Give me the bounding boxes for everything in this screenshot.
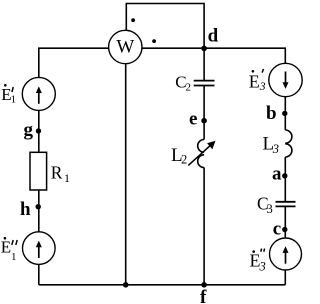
- svg-text:2: 2: [186, 81, 192, 93]
- node h: [36, 204, 41, 209]
- svg-text:3: 3: [272, 142, 279, 156]
- wire right branch E3' to L3: [284, 97, 286, 130]
- wire left branch E1'' to bottom rail: [38, 264, 40, 285]
- wattmeter W: [109, 30, 142, 63]
- variability arrow: [188, 141, 215, 166]
- wire middle branch C2 to L2 coil: [203, 86, 205, 140]
- wire right branch L3 to C3: [284, 157, 286, 202]
- inductor L3: [285, 130, 292, 157]
- svg-text:1: 1: [64, 171, 70, 185]
- svg-text:W: W: [116, 37, 134, 58]
- node b: [282, 111, 287, 116]
- capacitor C3: [276, 202, 296, 207]
- label L2: [171, 145, 187, 167]
- svg-text:1: 1: [11, 251, 17, 263]
- label E1': [1, 84, 16, 105]
- node f: [201, 282, 207, 288]
- wire middle branch d to C2: [203, 48, 205, 80]
- svg-text:R: R: [51, 162, 63, 182]
- svg-text:3: 3: [259, 260, 266, 274]
- svg-text:e: e: [189, 108, 197, 129]
- svg-text:a: a: [272, 164, 282, 185]
- svg-text:2: 2: [181, 153, 187, 167]
- wire wattmeter bottom to bottom rail: [125, 64, 127, 285]
- svg-text:3: 3: [259, 81, 266, 93]
- node g: [36, 128, 41, 133]
- wire left branch E1' to resistor: [38, 110, 40, 152]
- wattmeter polarity dot (current coil): [152, 39, 156, 43]
- node c: [282, 227, 287, 232]
- resistor R1: [30, 152, 47, 190]
- label R1: [51, 162, 70, 185]
- wire wattmeter right to node d and right corner: [142, 48, 285, 63]
- node d: [201, 46, 207, 52]
- junction below wattmeter: [123, 282, 129, 288]
- wattmeter polarity dot (voltage coil): [131, 18, 135, 22]
- source E1': [22, 77, 55, 110]
- label C3: [257, 194, 273, 217]
- node a: [282, 173, 287, 178]
- wire bottom rail: [39, 284, 285, 286]
- svg-text:h: h: [20, 199, 31, 220]
- svg-text:d: d: [208, 26, 219, 47]
- node e: [201, 118, 207, 124]
- svg-text:f: f: [200, 287, 207, 304]
- source E1'': [23, 232, 56, 265]
- wire right branch E3'' to bottom rail: [284, 270, 286, 285]
- source E3'': [270, 238, 302, 270]
- svg-text:c: c: [273, 219, 281, 240]
- label E3'': [250, 249, 266, 274]
- wire wattmeter voltage-coil rectangle: [126, 4, 204, 49]
- wire middle branch L2 to node f: [203, 168, 205, 285]
- svg-text:g: g: [24, 119, 34, 140]
- svg-text:b: b: [266, 103, 277, 124]
- inductor L2 (variable): [198, 140, 204, 168]
- capacitor C2: [194, 81, 215, 86]
- svg-text:1: 1: [11, 93, 17, 105]
- svg-text:3: 3: [267, 202, 273, 216]
- label E1'': [1, 237, 17, 263]
- wire left branch resistor to E1'': [38, 190, 40, 232]
- svg-text:E: E: [1, 238, 11, 257]
- label E3': [249, 69, 266, 93]
- svg-text:E: E: [249, 71, 260, 91]
- source E3': [269, 63, 302, 96]
- label C2: [175, 72, 191, 93]
- wire left-branch top corner to wattmeter: [39, 48, 109, 77]
- label L3: [263, 133, 279, 156]
- wire right branch C3 to E3'': [284, 207, 286, 238]
